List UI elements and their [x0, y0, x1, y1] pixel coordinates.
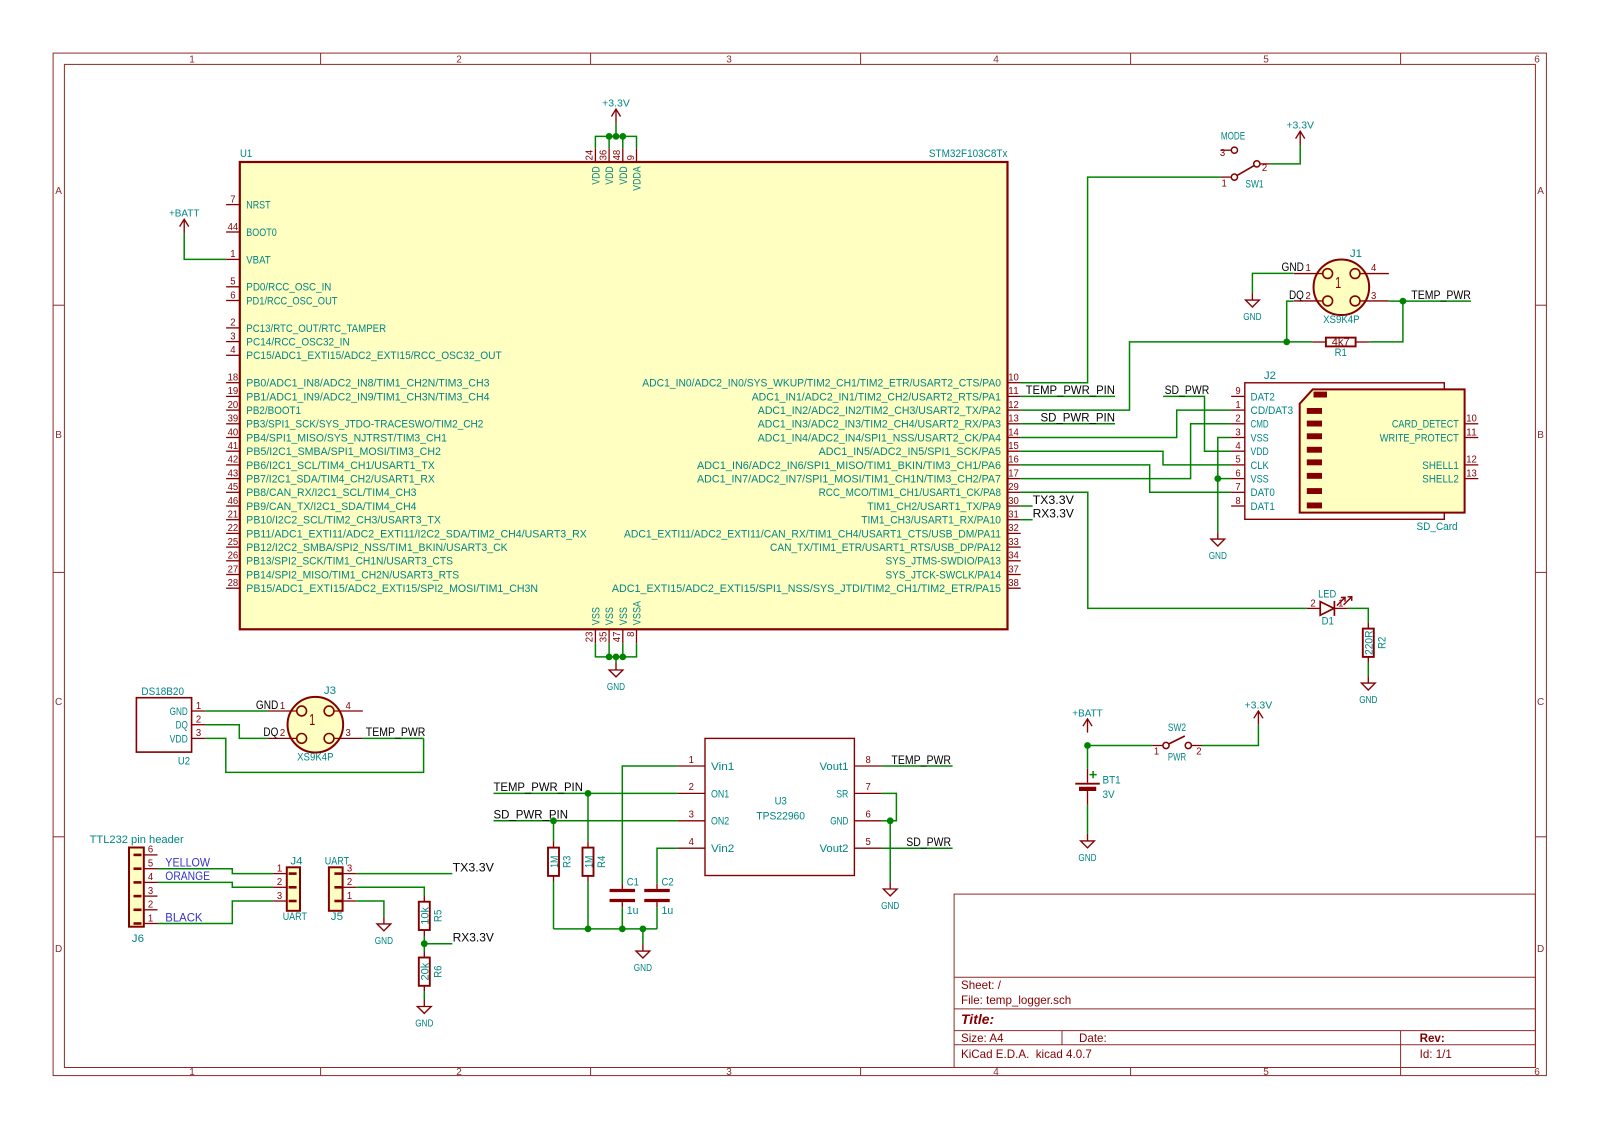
svg-text:ADC1_IN1/ADC2_IN1/TIM2_CH2/USA: ADC1_IN1/ADC2_IN1/TIM2_CH2/USART2_RTS/PA…: [752, 391, 1001, 403]
wire SW2 to +3.3V: [1202, 725, 1258, 746]
J2 pin 12 SHELL1: [1422, 455, 1478, 472]
svg-text:7: 7: [865, 782, 870, 793]
svg-text:DAT1: DAT1: [1251, 501, 1275, 513]
svg-text:SD_Card: SD_Card: [1417, 521, 1458, 533]
svg-text:4: 4: [689, 837, 695, 848]
svg-text:TIM1_CH3/USART1_RX/PA10: TIM1_CH3/USART1_RX/PA10: [861, 515, 1001, 527]
U1 pin 15 PA5: [819, 441, 1021, 458]
svg-text:PB10/I2C2_SCL/TIM2_CH3/USART3_: PB10/I2C2_SCL/TIM2_CH3/USART3_TX: [246, 515, 441, 527]
capacitor C1 1u: [610, 876, 639, 916]
svg-text:J3: J3: [324, 685, 336, 697]
svg-text:SD_PWR: SD_PWR: [1165, 384, 1210, 397]
U1 pin 12 PA2: [758, 400, 1021, 417]
wire U2 GND to J3 pin1: [205, 710, 268, 712]
title block text: [961, 979, 1452, 1061]
U1 pin 32 PA11: [624, 523, 1021, 540]
svg-text:TEMP_PWR: TEMP_PWR: [366, 726, 426, 739]
svg-text:PB12/I2C2_SMBA/SPI2_NSS/TIM1_B: PB12/I2C2_SMBA/SPI2_NSS/TIM1_BKIN/USART3…: [246, 542, 508, 554]
svg-text:GND: GND: [881, 901, 899, 912]
svg-text:1: 1: [280, 701, 285, 712]
U3 pin 5 Vout2: [820, 837, 882, 855]
J6 pin 2: [134, 900, 158, 911]
J2 pin 5 CLK: [1231, 455, 1269, 472]
svg-text:TEMP_PWR: TEMP_PWR: [1411, 289, 1471, 302]
svg-text:2: 2: [277, 877, 282, 888]
U2 pin 3 VDD: [170, 728, 206, 745]
svg-text:2: 2: [1306, 291, 1311, 302]
svg-text:2: 2: [689, 782, 694, 793]
svg-text:6: 6: [230, 290, 235, 301]
svg-text:11: 11: [1008, 386, 1019, 397]
svg-text:1: 1: [189, 54, 195, 65]
svg-text:VDDA: VDDA: [632, 166, 644, 191]
U1 pin 31 PA10: [861, 510, 1021, 527]
svg-text:PB14/SPI2_MISO/TIM1_CH2N/USART: PB14/SPI2_MISO/TIM1_CH2N/USART3_RTS: [246, 569, 459, 581]
wire J1 pin3 to TEMP_PWR: [1389, 300, 1471, 302]
svg-text:PB13/SPI2_SCK/TIM1_CH1N/USART3: PB13/SPI2_SCK/TIM1_CH1N/USART3_CTS: [246, 556, 453, 568]
U1 pin 19 PB1: [226, 386, 489, 403]
svg-text:18: 18: [228, 373, 239, 384]
svg-text:SHELL1: SHELL1: [1422, 460, 1459, 472]
svg-text:39: 39: [228, 414, 239, 425]
svg-text:1: 1: [1235, 400, 1240, 411]
U1 pin 5 PD0: [226, 277, 331, 294]
wire LED to R2: [1348, 608, 1369, 622]
wire VSS rail: [595, 643, 636, 657]
svg-text:WRITE_PROTECT: WRITE_PROTECT: [1380, 432, 1459, 444]
U1 pin 45 PB8: [226, 482, 416, 499]
svg-text:9: 9: [626, 155, 637, 160]
svg-text:2: 2: [1310, 599, 1315, 610]
U1 pin 38 PA15: [612, 578, 1021, 595]
wire TX3.3V stub (U1 pin 30): [1021, 505, 1033, 507]
svg-text:VDD: VDD: [170, 733, 188, 745]
svg-text:DAT2: DAT2: [1251, 391, 1275, 403]
svg-text:SR: SR: [836, 788, 848, 800]
svg-text:U3: U3: [775, 796, 787, 808]
J4 pin 1: [273, 863, 297, 874]
svg-text:32: 32: [1008, 523, 1019, 534]
svg-text:33: 33: [1008, 537, 1019, 548]
svg-text:TTL232 pin header: TTL232 pin header: [90, 834, 185, 846]
svg-text:LED: LED: [1318, 588, 1336, 600]
J2 pin 9 DAT2: [1231, 386, 1275, 403]
svg-text:VSS: VSS: [618, 607, 630, 625]
J5 pin 1: [334, 891, 356, 902]
svg-text:ADC1_IN0/ADC2_IN0/SYS_WKUP/TIM: ADC1_IN0/ADC2_IN0/SYS_WKUP/TIM2_CH1/TIM2…: [642, 378, 1001, 390]
svg-text:1u: 1u: [662, 905, 674, 917]
J5 pin 3: [334, 863, 356, 874]
svg-text:PB2/BOOT1: PB2/BOOT1: [246, 405, 301, 417]
svg-text:3: 3: [726, 1067, 732, 1078]
wire J3 pin3 to TEMP_PWR: [363, 737, 424, 739]
svg-text:9: 9: [1235, 386, 1240, 397]
svg-text:GND: GND: [830, 816, 848, 828]
power +3.3V (U1 top): [602, 99, 630, 123]
svg-text:DQ: DQ: [263, 726, 278, 739]
svg-text:TPS22960: TPS22960: [756, 810, 805, 822]
svg-text:PB8/CAN_RX/I2C1_SCL/TIM4_CH3: PB8/CAN_RX/I2C1_SCL/TIM4_CH3: [246, 487, 416, 499]
wire +BATT to BT1: [1087, 746, 1089, 769]
U1 pin 41 PB5: [226, 441, 441, 458]
resistor R1 4k7: [1312, 336, 1369, 359]
svg-text:R4: R4: [596, 856, 608, 868]
svg-text:3: 3: [347, 863, 352, 874]
svg-text:5: 5: [1263, 1067, 1269, 1078]
J2 pin 13 SHELL2: [1422, 468, 1478, 485]
svg-text:1: 1: [1338, 599, 1343, 610]
svg-text:5: 5: [230, 277, 235, 288]
U1 pin 22 PB11: [226, 523, 587, 540]
J4 pin 2: [273, 877, 297, 888]
wire R2 to GND: [1367, 663, 1369, 676]
resistor R4 1M: [583, 842, 609, 882]
svg-text:J2: J2: [1264, 370, 1276, 382]
svg-text:36: 36: [598, 150, 609, 161]
wire U3 GND down: [889, 821, 891, 882]
U1 pin 9 VDDA (top): [626, 148, 644, 190]
U1 pin 46 PB9: [226, 496, 416, 513]
svg-text:PB15/ADC1_EXTI15/ADC2_EXTI15/S: PB15/ADC1_EXTI15/ADC2_EXTI15/SPI2_MOSI/T…: [246, 583, 538, 595]
svg-text:PB11/ADC1_EXTI11/ADC2_EXTI11/I: PB11/ADC1_EXTI11/ADC2_EXTI11/I2C2_SDA/TI…: [246, 528, 587, 540]
svg-text:RCC_MCO/TIM1_CH1/USART1_CK/PA8: RCC_MCO/TIM1_CH1/USART1_CK/PA8: [819, 487, 1001, 499]
wire GND stem: [615, 657, 617, 663]
U1 pin 3 PC14: [226, 331, 350, 348]
svg-text:KiCad E.D.A. kicad 4.0.7: KiCad E.D.A. kicad 4.0.7: [961, 1048, 1092, 1061]
wire J2 VSS pins to GND: [1218, 438, 1231, 533]
wire C2 to gnd bus: [656, 907, 658, 929]
svg-text:2: 2: [347, 877, 352, 888]
svg-text:D: D: [1537, 944, 1544, 955]
svg-text:TX3.3V: TX3.3V: [1033, 494, 1075, 507]
svg-text:PC14/RCC_OSC32_IN: PC14/RCC_OSC32_IN: [246, 337, 349, 349]
svg-text:R2: R2: [1376, 637, 1388, 649]
svg-text:4: 4: [230, 345, 236, 356]
J6 pin 1: [134, 913, 158, 924]
U1 pin 48 VDD (top): [612, 148, 630, 184]
svg-text:CAN_TX/TIM1_ETR/USART1_RTS/USB: CAN_TX/TIM1_ETR/USART1_RTS/USB_DP/PA12: [770, 542, 1001, 554]
svg-text:4: 4: [993, 1067, 999, 1078]
wire SD_PWR_PIN stub (U1 pin 13): [1021, 423, 1115, 425]
svg-text:+BATT: +BATT: [1072, 708, 1103, 719]
U1 pin 33 PA12: [770, 537, 1021, 554]
svg-text:File: temp_logger.sch: File: temp_logger.sch: [961, 994, 1071, 1007]
svg-text:GND: GND: [1359, 695, 1377, 706]
U1 pin 8 VSSA (bottom): [626, 600, 644, 643]
svg-text:3V: 3V: [1103, 789, 1116, 801]
svg-text:8: 8: [865, 755, 870, 766]
svg-text:28: 28: [228, 578, 239, 589]
junction J2 VSS: [1214, 475, 1221, 482]
IC U1 STM32F103C8Tx body: [240, 162, 1008, 629]
junction VDD rail b: [613, 133, 620, 140]
svg-text:PB1/ADC1_IN9/ADC2_IN9/TIM1_CH3: PB1/ADC1_IN9/ADC2_IN9/TIM1_CH3N/TIM3_CH4: [246, 391, 489, 403]
svg-text:+BATT: +BATT: [169, 209, 200, 220]
resistor R3 1M: [548, 842, 574, 882]
svg-text:3: 3: [196, 728, 201, 739]
IC U2 DS18B20 body: [136, 698, 191, 752]
svg-text:1: 1: [1306, 263, 1311, 274]
ground (R6): [415, 1000, 433, 1030]
svg-text:48: 48: [612, 150, 623, 161]
svg-text:D1: D1: [1322, 615, 1334, 627]
svg-text:7: 7: [230, 194, 235, 205]
svg-text:SYS_JTCK-SWCLK/PA14: SYS_JTCK-SWCLK/PA14: [886, 569, 1002, 581]
wire +3.3V stem: [615, 123, 617, 136]
svg-text:45: 45: [228, 482, 239, 493]
svg-text:13: 13: [1008, 414, 1019, 425]
svg-text:B: B: [55, 430, 62, 441]
svg-text:41: 41: [228, 441, 239, 452]
svg-text:UART: UART: [283, 911, 308, 923]
svg-text:6: 6: [1534, 54, 1540, 65]
junction VSS rail c: [619, 654, 626, 661]
svg-text:BT1: BT1: [1103, 775, 1121, 787]
U1 pin 28 PB15: [226, 578, 538, 595]
svg-text:BLACK: BLACK: [165, 911, 202, 924]
connector J3 XS9K4P: [268, 685, 363, 763]
power +3.3V (SW2): [1245, 700, 1273, 724]
svg-text:19: 19: [228, 386, 239, 397]
wire Vin1 to C1: [622, 766, 677, 884]
wire gnd bus stem: [642, 929, 644, 944]
U1 pin 14 PA4: [758, 427, 1021, 444]
connector J4 body: [287, 867, 300, 911]
wire BT1 to GND: [1087, 805, 1089, 834]
svg-text:+3.3V: +3.3V: [602, 99, 630, 110]
svg-text:BOOT0: BOOT0: [246, 227, 276, 239]
wire R5 to RX3.3V junction: [423, 936, 425, 944]
svg-text:ADC1_IN3/ADC2_IN3/TIM2_CH4/USA: ADC1_IN3/ADC2_IN3/TIM2_CH4/USART2_RX/PA3: [758, 419, 1001, 431]
svg-text:Vin1: Vin1: [711, 761, 734, 773]
svg-text:4: 4: [1235, 441, 1241, 452]
svg-text:J4: J4: [290, 856, 302, 868]
svg-text:ADC1_EXTI11/ADC2_EXTI11/CAN_RX: ADC1_EXTI11/ADC2_EXTI11/CAN_RX/TIM1_CH4/…: [624, 528, 1001, 540]
svg-text:10: 10: [1466, 414, 1477, 425]
svg-text:1: 1: [196, 701, 201, 712]
svg-text:2: 2: [148, 900, 153, 911]
ground (J1): [1243, 293, 1261, 323]
wire U2 DQ to J3 pin2: [205, 725, 268, 739]
svg-text:RX3.3V: RX3.3V: [453, 932, 495, 945]
svg-text:1: 1: [230, 249, 235, 260]
svg-text:CLK: CLK: [1251, 460, 1270, 472]
svg-text:16: 16: [1008, 455, 1019, 466]
connector J6 TTL232 body: [129, 848, 144, 927]
J2 SD card graphic: [1300, 389, 1465, 512]
U3 pin 8 Vout1: [820, 755, 882, 773]
svg-text:VSS: VSS: [604, 607, 616, 625]
svg-text:SYS_JTMS-SWDIO/PA13: SYS_JTMS-SWDIO/PA13: [886, 556, 1002, 568]
svg-text:R3: R3: [562, 856, 574, 868]
resistor R5 10k: [419, 896, 445, 936]
wire Vout2 SD_PWR: [882, 847, 953, 849]
svg-text:4: 4: [1371, 263, 1377, 274]
ground (U3): [881, 882, 899, 912]
svg-text:CD/DAT3: CD/DAT3: [1251, 405, 1294, 417]
svg-text:2: 2: [1262, 163, 1267, 174]
wire PA5 to CLK: [1021, 451, 1231, 465]
svg-text:Vout1: Vout1: [820, 761, 849, 773]
U1 pin 24 VDD (top): [585, 148, 603, 184]
wire R6 to GND: [423, 992, 425, 1000]
svg-text:27: 27: [228, 564, 239, 575]
svg-text:31: 31: [1008, 510, 1019, 521]
svg-text:GND: GND: [256, 699, 278, 712]
battery BT1 3V: [1075, 769, 1120, 805]
svg-text:3: 3: [1371, 291, 1376, 302]
svg-text:GND: GND: [1282, 261, 1304, 274]
svg-text:+3.3V: +3.3V: [1245, 700, 1273, 711]
svg-text:TEMP_PWR: TEMP_PWR: [891, 754, 951, 767]
svg-text:2: 2: [280, 728, 285, 739]
wire Vout1 TEMP_PWR: [882, 765, 953, 767]
svg-text:GND: GND: [607, 682, 625, 693]
svg-text:5: 5: [1263, 54, 1269, 65]
wire VDD rail: [595, 136, 636, 148]
wire C1 to gnd bus: [621, 907, 623, 929]
capacitor C2 1u: [644, 876, 673, 916]
wire J2 VSS pin6 branch: [1218, 478, 1231, 480]
J5 pin 2: [334, 877, 356, 888]
ground (C bus): [634, 944, 652, 974]
svg-text:VDD: VDD: [604, 166, 616, 184]
junction VSS rail a: [606, 654, 613, 661]
U1 pin 4 PC15: [226, 345, 502, 362]
svg-text:6: 6: [1534, 1067, 1540, 1078]
svg-text:1: 1: [347, 891, 352, 902]
junction +BATT: [1084, 742, 1091, 749]
svg-text:6: 6: [148, 845, 153, 856]
U1 pin 43 PB7: [226, 468, 435, 485]
svg-text:2: 2: [230, 318, 235, 329]
svg-text:26: 26: [228, 551, 239, 562]
wire J1 pin2 down: [1287, 301, 1294, 342]
wire pin35 to rail: [608, 643, 610, 657]
svg-text:1: 1: [277, 863, 282, 874]
svg-text:17: 17: [1008, 468, 1019, 479]
svg-text:1: 1: [309, 712, 315, 729]
wire PA4 to CD/DAT3: [1021, 410, 1231, 437]
svg-text:PB0/ADC1_IN8/ADC2_IN8/TIM1_CH2: PB0/ADC1_IN8/ADC2_IN8/TIM1_CH2N/TIM3_CH3: [246, 378, 489, 390]
svg-text:PB7/I2C1_SDA/TIM4_CH2/USART1_R: PB7/I2C1_SDA/TIM4_CH2/USART1_RX: [246, 474, 434, 486]
svg-text:25: 25: [228, 537, 239, 548]
U3 pin 4 Vin2: [678, 837, 735, 855]
connector J5 body: [329, 867, 343, 911]
svg-text:38: 38: [1008, 578, 1019, 589]
svg-text:SD_PWR: SD_PWR: [906, 836, 951, 849]
svg-text:RX3.3V: RX3.3V: [1033, 508, 1075, 521]
svg-text:1M: 1M: [549, 856, 561, 868]
power +BATT (left): [169, 209, 200, 233]
wire J5 pin2 to R5: [356, 887, 424, 895]
U3 pin 1 Vin1: [678, 755, 735, 773]
svg-text:2: 2: [456, 1067, 462, 1078]
wire U2 VDD detour to TEMP_PWR: [205, 738, 423, 772]
svg-text:C: C: [1537, 697, 1544, 708]
wire RX3.3V stub (U1 pin 31): [1021, 519, 1033, 521]
svg-text:ON2: ON2: [711, 816, 729, 828]
svg-text:MODE: MODE: [1221, 130, 1245, 142]
svg-text:ADC1_IN4/ADC2_IN4/SPI1_NSS/USA: ADC1_IN4/ADC2_IN4/SPI1_NSS/USART2_CK/PA4: [758, 432, 1001, 444]
svg-text:3: 3: [277, 891, 282, 902]
wire pin36 to rail: [608, 136, 610, 148]
svg-text:44: 44: [228, 222, 239, 233]
U3 pin 7 SR: [836, 782, 882, 800]
svg-text:46: 46: [228, 496, 239, 507]
svg-text:YELLOW: YELLOW: [165, 857, 210, 870]
wire TEMP_PWR_PIN to ON1: [494, 792, 678, 794]
power +BATT (BT1): [1072, 708, 1103, 732]
junction VDD rail a: [606, 133, 613, 140]
svg-text:7: 7: [1235, 482, 1240, 493]
svg-text:10k: 10k: [420, 906, 432, 924]
svg-text:3: 3: [148, 886, 153, 897]
svg-text:XS9K4P: XS9K4P: [1323, 314, 1360, 326]
U2 pin 2 DQ: [176, 715, 206, 732]
svg-text:PD0/RCC_OSC_IN: PD0/RCC_OSC_IN: [246, 282, 331, 294]
svg-text:A: A: [55, 186, 62, 197]
U1 pin 30 PA9: [867, 496, 1021, 513]
svg-text:6: 6: [1235, 468, 1240, 479]
svg-text:43: 43: [228, 468, 239, 479]
U1 pin 18 PB0: [226, 373, 489, 390]
svg-text:3: 3: [689, 810, 694, 821]
svg-text:UART: UART: [325, 856, 350, 868]
junction gnd bus a: [585, 926, 592, 933]
svg-text:20: 20: [228, 400, 239, 411]
svg-text:1u: 1u: [627, 905, 639, 917]
wire R4 to gnd bus: [587, 882, 589, 929]
wire PA2 to R1 net: [1021, 342, 1312, 410]
svg-text:ADC1_IN2/ADC2_IN2/TIM2_CH3/USA: ADC1_IN2/ADC2_IN2/TIM2_CH3/USART2_TX/PA2: [758, 405, 1001, 417]
wire GND pin stub: [882, 820, 890, 822]
wire J5 pin1 to GND: [356, 901, 384, 917]
U1 pin 11 PA1: [752, 386, 1021, 403]
svg-text:5: 5: [148, 859, 153, 870]
svg-text:GND: GND: [415, 1019, 433, 1030]
ground (J2): [1209, 532, 1227, 562]
J6 pin 5: [134, 859, 158, 870]
svg-text:PC13/RTC_OUT/RTC_TAMPER: PC13/RTC_OUT/RTC_TAMPER: [246, 323, 386, 335]
svg-text:C: C: [55, 697, 62, 708]
wire TEMP_PWR_PIN stub (U1 pin 11): [1021, 395, 1115, 397]
svg-text:20k: 20k: [420, 962, 432, 980]
svg-text:3: 3: [230, 331, 235, 342]
wire SD_PWR_PIN to ON2: [494, 820, 678, 822]
svg-text:VDD: VDD: [1251, 446, 1269, 458]
ground (BT1): [1078, 834, 1096, 864]
J2 pin 3 VSS: [1231, 427, 1269, 444]
wire TEMP_PWR down to R1: [1369, 301, 1403, 342]
J2 pin 11 WRITE_PROTECT: [1380, 427, 1479, 444]
svg-text:PB5/I2C1_SMBA/SPI1_MOSI/TIM3_C: PB5/I2C1_SMBA/SPI1_MOSI/TIM3_CH2: [246, 446, 441, 458]
svg-text:CARD_DETECT: CARD_DETECT: [1392, 419, 1459, 431]
svg-text:PB4/SPI1_MISO/SYS_NJTRST/TIM3_: PB4/SPI1_MISO/SYS_NJTRST/TIM3_CH1: [246, 432, 447, 444]
wire R3 to gnd bus: [553, 882, 555, 929]
junction R4 top: [585, 790, 592, 797]
U1 pin 16 PA6: [697, 455, 1021, 472]
svg-text:SHELL2: SHELL2: [1422, 474, 1459, 486]
svg-text:22: 22: [228, 523, 239, 534]
junction RX3.3V: [421, 940, 428, 947]
U1 pin 27 PB14: [226, 564, 459, 581]
svg-text:12: 12: [1466, 455, 1477, 466]
svg-text:PWR: PWR: [1168, 752, 1186, 764]
svg-text:ADC1_IN6/ADC2_IN6/SPI1_MISO/TI: ADC1_IN6/ADC2_IN6/SPI1_MISO/TIM1_BKIN/TI…: [697, 460, 1001, 472]
svg-text:PD1/RCC_OSC_OUT: PD1/RCC_OSC_OUT: [246, 295, 338, 307]
svg-text:1: 1: [1222, 179, 1227, 190]
